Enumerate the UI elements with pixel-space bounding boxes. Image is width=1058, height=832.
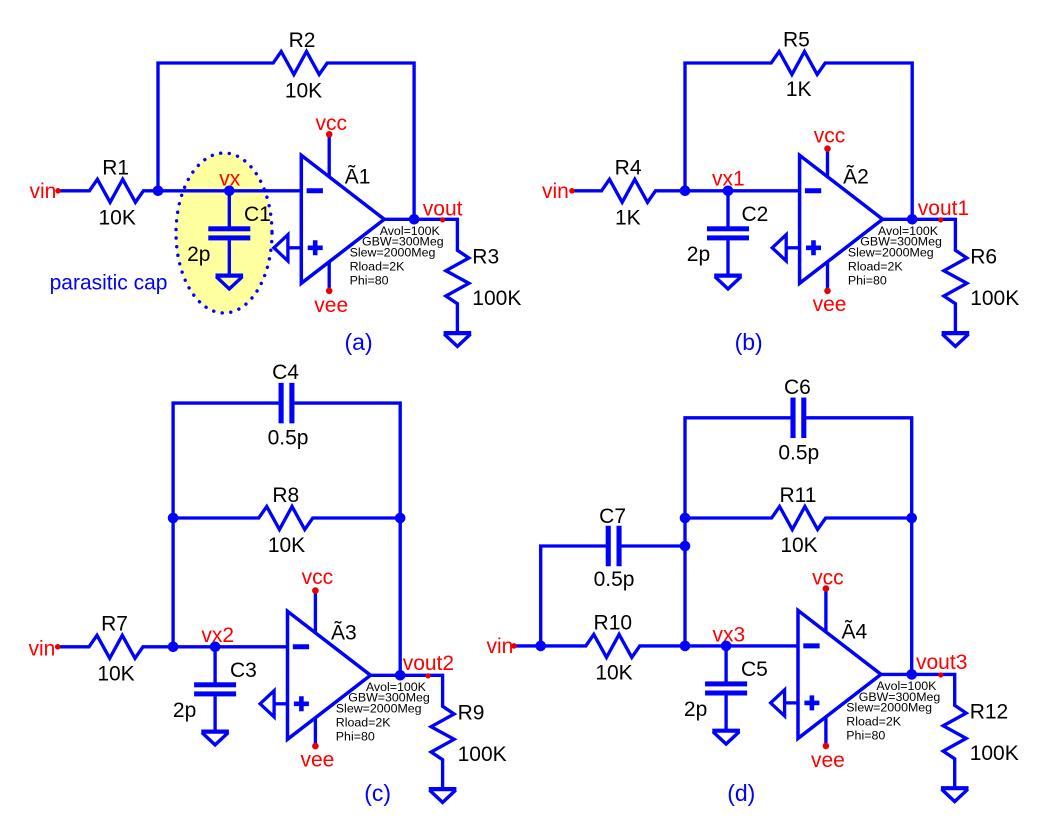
wire op-amp output to vout3 and R12 (d)	[881, 674, 966, 788]
capacitor C2	[726, 191, 729, 227]
ground below R6	[942, 331, 970, 335]
ground below C5	[712, 729, 740, 733]
svg-text:C1: C1	[244, 203, 271, 226]
op-amp &#195;3	[260, 611, 370, 739]
svg-text:10K: 10K	[595, 662, 632, 685]
svg-text:vin: vin	[542, 180, 569, 203]
svg-text:C4: C4	[272, 361, 299, 384]
svg-text:Slew=2000Meg: Slew=2000Meg	[336, 702, 422, 716]
capacitor C5	[724, 646, 727, 682]
svg-text:2p: 2p	[187, 243, 210, 266]
svg-text:R12: R12	[970, 701, 1009, 724]
pin dot vout1	[938, 217, 943, 222]
junction dot K/R11 row (d)	[680, 513, 691, 524]
svg-text:vin: vin	[487, 635, 514, 658]
highlight ellipse around parasitic cap C1	[176, 153, 272, 313]
op-amp &#195;2	[772, 155, 882, 283]
svg-text:vee: vee	[811, 749, 845, 772]
svg-text:vee: vee	[813, 293, 847, 316]
svg-text:0.5p: 0.5p	[778, 441, 819, 464]
svg-text:1K: 1K	[786, 78, 812, 101]
junction dot output/feedback (d)	[906, 669, 917, 680]
svg-text:R3: R3	[472, 245, 499, 268]
svg-text:(c): (c)	[364, 780, 391, 806]
pin dot vcc of &#195;4	[823, 585, 830, 592]
junction node input/feedback (c)	[168, 642, 179, 653]
junction node R1/R2/vx (a)	[153, 186, 164, 197]
svg-text:Phi=80: Phi=80	[846, 728, 885, 742]
svg-text:R11: R11	[780, 484, 817, 507]
svg-text:C3: C3	[230, 659, 257, 682]
svg-text:Phi=80: Phi=80	[350, 273, 389, 287]
svg-text:R10: R10	[594, 612, 633, 635]
svg-text:(b): (b)	[735, 329, 763, 355]
wire vcc pin of &#195;3	[314, 591, 317, 634]
svg-text:Ã2: Ã2	[843, 165, 869, 189]
svg-text:R2: R2	[289, 29, 316, 52]
svg-text:2p: 2p	[687, 243, 710, 266]
ground below R9	[429, 787, 457, 791]
svg-text:R1: R1	[102, 156, 129, 179]
ground below R12	[941, 786, 969, 790]
svg-text:0.5p: 0.5p	[268, 427, 309, 450]
pin dot vout	[440, 217, 445, 222]
svg-text:10K: 10K	[99, 207, 136, 230]
wire vin to input node to R10 row (d)	[514, 634, 798, 657]
op-amp &#195;4	[771, 610, 881, 738]
capacitor C4 plates	[279, 383, 284, 424]
capacitor C1	[228, 191, 231, 227]
svg-text:C5: C5	[741, 658, 768, 681]
svg-text:100K: 100K	[970, 287, 1019, 310]
ground below C2	[714, 274, 742, 278]
svg-text:vout2: vout2	[403, 652, 454, 675]
svg-text:vcc: vcc	[302, 566, 334, 589]
svg-text:10K: 10K	[268, 534, 305, 557]
op-amp model parameter text Avol/GBW/Slew/Rload/Phi	[846, 679, 940, 742]
svg-text:2p: 2p	[684, 698, 707, 721]
wire feedback loop left/top with C4 (c)	[173, 403, 400, 675]
svg-text:vout3: vout3	[916, 651, 967, 674]
junction dot vx3	[721, 641, 732, 652]
svg-text:vee: vee	[314, 294, 348, 317]
junction dot K/C7 row (d)	[680, 541, 691, 552]
junction dot vx2	[210, 642, 221, 653]
wire vee pin of &#195;3	[314, 717, 317, 746]
wire feedback row with R8 (c)	[173, 507, 400, 530]
svg-text:Slew=2000Meg: Slew=2000Meg	[350, 246, 436, 260]
svg-text:vout1: vout1	[918, 197, 969, 220]
pin dot vee of &#195;1	[326, 288, 333, 295]
pin dot vcc of &#195;3	[312, 587, 319, 594]
capacitor C3	[213, 647, 216, 683]
svg-text:C6: C6	[784, 376, 811, 399]
wire vcc pin of &#195;1	[328, 134, 331, 177]
svg-text:vin: vin	[30, 180, 57, 203]
pin dot vee of &#195;2	[824, 288, 831, 295]
svg-text:(a): (a)	[345, 329, 373, 355]
pin dot vee of &#195;4	[823, 743, 830, 750]
pin dot vout3	[938, 672, 943, 677]
svg-text:vin: vin	[29, 637, 56, 660]
svg-text:Rload=2K: Rload=2K	[846, 714, 902, 728]
wire vee pin of &#195;2	[826, 261, 829, 291]
junction dot left feedback/R8 (c)	[168, 513, 179, 524]
svg-text:parasitic cap: parasitic cap	[50, 272, 168, 295]
node vin pin dot (c)	[55, 644, 61, 650]
svg-text:R4: R4	[615, 156, 642, 179]
pin dot vout2	[426, 673, 431, 678]
svg-text:10K: 10K	[285, 80, 322, 103]
svg-text:C2: C2	[742, 203, 769, 226]
svg-text:10K: 10K	[97, 663, 134, 686]
svg-text:100K: 100K	[970, 742, 1019, 765]
wire vcc pin of &#195;4	[824, 589, 827, 633]
wire feedback loop with R2 (a)	[158, 52, 414, 220]
wire vcc pin of &#195;2	[826, 149, 829, 178]
node vin pin dot (a)	[55, 188, 61, 194]
svg-text:100K: 100K	[458, 743, 507, 766]
junction dot right feedback/R8 (c)	[395, 513, 406, 524]
junction dot output/feedback (c)	[395, 670, 406, 681]
pin dot vcc of &#195;2	[824, 145, 831, 152]
wire op-amp output to vout1 and R6 (b)	[883, 219, 967, 333]
junction dot output/feedback (a)	[409, 214, 420, 225]
svg-text:vout: vout	[423, 198, 463, 221]
wire op-amp output to vout2 and R9 (c)	[371, 675, 455, 789]
junction node R4/R5/vx1 (b)	[680, 186, 691, 197]
op-amp &#195;1	[274, 155, 384, 283]
svg-text:vee: vee	[300, 749, 334, 772]
svg-text:Phi=80: Phi=80	[336, 729, 375, 743]
svg-text:Phi=80: Phi=80	[848, 273, 887, 287]
wire vee pin of &#195;4	[824, 716, 827, 746]
capacitor C6 plates	[790, 398, 795, 439]
pin dot vee of &#195;3	[312, 743, 319, 750]
svg-text:R6: R6	[970, 245, 997, 268]
svg-text:Slew=2000Meg: Slew=2000Meg	[846, 701, 932, 715]
wire C7 right to node K (d)	[621, 544, 685, 547]
op-amp model parameter text Avol/GBW/Slew/Rload/Phi	[350, 224, 444, 287]
junction dot right feedback/R11 (d)	[906, 513, 917, 524]
svg-text:Rload=2K: Rload=2K	[848, 259, 904, 273]
ground below C3	[201, 729, 229, 733]
wire node K vertical (d)	[685, 418, 912, 675]
wire input branch up to C7 (d)	[541, 546, 607, 646]
svg-text:R5: R5	[783, 29, 810, 52]
wire vin to R1 to inverting input row (a)	[58, 179, 301, 202]
capacitor C7 plates	[606, 526, 611, 567]
wire vee pin of &#195;1	[328, 261, 331, 291]
svg-text:R9: R9	[458, 701, 485, 724]
wire vin to R4 to inverting input row (b)	[572, 179, 800, 202]
wire feedback loop with R5 (b)	[685, 52, 912, 220]
wire op-amp output to vout and R3 (a)	[384, 219, 469, 333]
svg-text:10K: 10K	[780, 534, 817, 557]
junction dot vx	[224, 186, 235, 197]
node vin pin dot (d)	[511, 643, 517, 649]
op-amp model parameter text Avol/GBW/Slew/Rload/Phi	[336, 680, 430, 743]
op-amp model parameter text Avol/GBW/Slew/Rload/Phi	[848, 224, 942, 287]
pin dot vcc of &#195;1	[326, 131, 333, 138]
ground below R3	[444, 331, 472, 335]
node vin pin dot (b)	[569, 188, 575, 194]
wire vin to R7 to inverting input row (c)	[58, 635, 288, 658]
svg-text:Rload=2K: Rload=2K	[336, 715, 392, 729]
ground below C1	[216, 274, 244, 278]
svg-text:C7: C7	[599, 505, 626, 528]
svg-text:vcc: vcc	[812, 567, 844, 590]
svg-text:Rload=2K: Rload=2K	[350, 259, 406, 273]
svg-text:Ã3: Ã3	[331, 621, 357, 645]
svg-text:100K: 100K	[472, 287, 521, 310]
svg-text:(d): (d)	[727, 780, 755, 806]
svg-text:vcc: vcc	[814, 125, 846, 148]
junction dot vx1	[723, 186, 734, 197]
junction dot K/input row (d)	[680, 641, 691, 652]
svg-text:R7: R7	[101, 612, 128, 635]
junction dot output/feedback (b)	[907, 214, 918, 225]
junction dot input node J (d)	[535, 641, 546, 652]
svg-text:Ã4: Ã4	[842, 620, 868, 644]
wire feedback row with R11 (d)	[685, 507, 912, 530]
svg-text:Ã1: Ã1	[345, 165, 371, 189]
svg-text:R8: R8	[272, 484, 299, 507]
svg-text:0.5p: 0.5p	[594, 568, 635, 591]
svg-text:2p: 2p	[173, 699, 196, 722]
svg-text:Slew=2000Meg: Slew=2000Meg	[848, 246, 934, 260]
svg-text:1K: 1K	[615, 207, 641, 230]
svg-text:vcc: vcc	[315, 112, 347, 135]
